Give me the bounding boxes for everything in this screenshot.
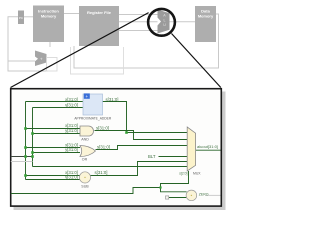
wire faint right of zero <box>206 194 221 196</box>
callout line right <box>172 34 221 88</box>
wire register file to alu input A <box>119 14 158 16</box>
magnifier circle <box>148 9 175 36</box>
OR gate <box>80 146 96 157</box>
wire BLT to mux <box>159 156 189 158</box>
adder PC+4 (small alu shape) <box>35 51 47 67</box>
svg-text:s[31:0]: s[31:0] <box>97 145 110 150</box>
block Register File <box>79 6 119 46</box>
svg-text:y[31:0]: y[31:0] <box>65 175 78 180</box>
svg-text:s[31:0]: s[31:0] <box>96 126 109 131</box>
svg-text:x[31:0]: x[31:0] <box>65 97 78 102</box>
wire instruction memory to register file <box>64 13 79 15</box>
wire V2 long to mux <box>33 166 189 168</box>
AND gate <box>80 126 94 136</box>
junction dots <box>24 127 161 188</box>
wire select to left edge <box>11 188 161 194</box>
svg-text:OR: OR <box>82 158 88 162</box>
svg-text:BLT: BLT <box>148 154 156 159</box>
wire zero pin to circle <box>169 197 187 199</box>
wire adder output to mux <box>103 102 189 133</box>
svg-text:Register File: Register File <box>87 10 112 15</box>
adder block APPROXIMATE_ADDER <box>83 93 103 115</box>
svg-text:SUB: SUB <box>81 185 89 189</box>
ZERO indicator circle <box>186 190 197 201</box>
block PC <box>18 11 24 25</box>
wire instruction memory down <box>49 42 51 47</box>
faint outline under register file <box>71 47 124 74</box>
wire adder input y <box>33 107 84 109</box>
wire alu to data memory <box>170 21 196 23</box>
block Instruction Memory <box>33 6 64 43</box>
svg-text:y[31:0]: y[31:0] <box>65 103 78 108</box>
wire AND output to mux <box>95 131 189 140</box>
svg-text:APPROXIMATE_ADDER: APPROXIMATE_ADDER <box>74 116 112 120</box>
svg-text:+: + <box>85 95 88 100</box>
svg-text:s[31:0]: s[31:0] <box>95 170 108 175</box>
wire bus V1 (x input riser) <box>25 102 27 180</box>
svg-text:s[2:0]: s[2:0] <box>179 171 187 175</box>
svg-text:s[31:0]: s[31:0] <box>106 97 119 102</box>
svg-text:L: L <box>164 18 166 22</box>
svg-text:aluout[31:0]: aluout[31:0] <box>197 144 218 149</box>
wire AND input x <box>26 128 81 130</box>
wire register file to alu input B <box>119 30 158 32</box>
wire mux output <box>196 149 221 151</box>
wire OR input x <box>26 147 81 149</box>
detail box frame <box>11 89 222 206</box>
wire mux select stair <box>161 171 189 192</box>
wire SUB input y <box>26 179 80 181</box>
svg-text:Memory: Memory <box>198 13 214 18</box>
svg-text:MUX: MUX <box>193 171 201 175</box>
wire pc to instruction memory <box>24 16 33 18</box>
wire bus V2 (y input riser) <box>32 108 34 167</box>
block Data Memory <box>195 6 216 42</box>
svg-text:Memory: Memory <box>41 13 57 18</box>
signal labels <box>65 97 218 180</box>
wire writeback loop <box>74 14 219 68</box>
svg-text:+: + <box>40 56 43 61</box>
svg-text:U: U <box>163 23 166 27</box>
box shadow <box>14 92 226 211</box>
faint outline box near adder <box>47 58 58 72</box>
wire SUB input x <box>26 175 80 177</box>
wire left input faint <box>11 161 33 163</box>
wire left input dark <box>11 156 33 158</box>
callout line left <box>11 13 149 88</box>
svg-text:ZERO: ZERO <box>199 192 209 196</box>
wire AND input y <box>33 133 81 135</box>
svg-text:y[31:0]: y[31:0] <box>65 147 78 152</box>
svg-text:AND: AND <box>81 138 89 142</box>
wire adder input x <box>26 101 84 103</box>
input pin zero <box>166 196 169 199</box>
svg-text:y[31:0]: y[31:0] <box>65 128 78 133</box>
SUB unit circle <box>79 172 90 183</box>
MUX trapezoid <box>187 127 195 171</box>
wire pc loop <box>8 17 48 71</box>
wire OR output to mux <box>96 146 189 150</box>
wire SUB output to mux <box>91 162 189 176</box>
wire OR input y <box>33 152 81 154</box>
ALU (highlighted under magnifier) <box>158 10 170 34</box>
